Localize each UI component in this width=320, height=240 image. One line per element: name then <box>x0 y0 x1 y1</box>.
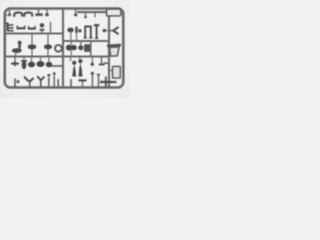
part: hull blob row 1 <box>28 57 35 68</box>
part: bulb on base <box>40 23 45 33</box>
part: drum <box>78 42 83 50</box>
part: door panel right of V2 <box>110 66 120 78</box>
horizontal sub-runner top right <box>77 11 106 13</box>
part: pin with bead b2 <box>53 72 56 87</box>
horizontal runner H3 right upper <box>63 40 109 42</box>
part: small knob top-left <box>8 10 11 17</box>
part: hammer tee <box>94 25 99 38</box>
part: rail with end ticks B1 <box>17 26 26 29</box>
part: fender arc A2 <box>24 12 32 16</box>
part: cross pin left <box>11 57 19 67</box>
part: ring washer <box>55 45 62 52</box>
part: pin with bead b1 <box>47 74 50 87</box>
part: rail with end ticks B2 <box>28 26 36 29</box>
part: cross tee bottom right <box>100 77 117 87</box>
part: block <box>84 42 91 56</box>
part: thin rod on H1 <box>50 22 52 34</box>
part: wishbone Y <box>37 76 44 87</box>
part: hull blob row 3 <box>46 57 52 68</box>
part: oval pad P2 <box>44 34 52 57</box>
part: fender arc A1 <box>14 12 22 16</box>
part: bead left of V2 <box>103 29 109 33</box>
part: tee base near V2 <box>99 57 105 64</box>
part: bead pin mid <box>91 57 94 66</box>
background <box>0 0 130 98</box>
part: twin wheel cluster <box>66 42 77 56</box>
part: shallow tray top right <box>107 9 121 16</box>
part: stub with bead under sub-runner <box>84 13 87 18</box>
part: candle pin 2 <box>97 75 100 87</box>
part: lever blob right of V1 <box>67 28 73 41</box>
part: tee bracket <box>35 10 42 15</box>
sprue frame <box>5 9 124 88</box>
part: stub with bead bottom left <box>15 79 20 88</box>
vertical runner V2 <box>108 9 110 88</box>
part: candle pin 1 <box>91 72 94 87</box>
part: bowling pin figure 1 <box>71 57 77 77</box>
part: low bar bottom <box>79 80 87 87</box>
part: stub on bottom frame 1 <box>57 79 59 87</box>
part: bird bracket 1 <box>24 77 33 87</box>
part: hull blob row 2 <box>37 57 45 68</box>
part: standing figure blob <box>21 57 27 70</box>
part: knob on stub <box>45 10 49 17</box>
part: seat bucket <box>107 45 121 56</box>
part: stub on bottom frame 2 <box>70 79 72 87</box>
horizontal runner H2 mid <box>5 55 109 57</box>
part: knob right of V1 <box>74 10 77 17</box>
vertical runner V1 <box>62 9 64 88</box>
part: bead on H3 left <box>78 29 81 32</box>
part: bowling pin figure 2 <box>78 57 82 77</box>
horizontal runner H1 left <box>5 32 63 34</box>
part: oval pad P1 <box>28 34 37 57</box>
part: dash on frame top-left <box>5 14 7 16</box>
part: plain stub under sub-runner <box>94 13 96 18</box>
stub runner to blob row <box>50 65 63 67</box>
part: staple frame <box>84 27 93 38</box>
part: bar left of V2 <box>104 62 109 64</box>
part: pistol shape left <box>12 41 22 56</box>
part: arrow chevron right of V2 <box>110 27 119 34</box>
part: comb bracket left <box>5 23 14 31</box>
part: small post part <box>75 27 78 42</box>
